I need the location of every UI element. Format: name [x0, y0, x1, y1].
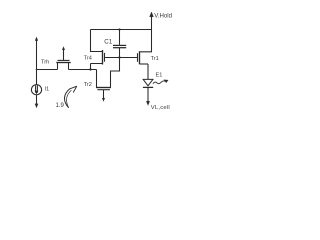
svg-text:Trh: Trh [41, 59, 49, 65]
transistor Trh drain leg [68, 63, 70, 70]
transistor Trh source leg [57, 63, 59, 70]
wire gate bus from Tr4 gate to Tr1 gate [105, 57, 138, 59]
transistor Tr2 left leg [96, 70, 98, 88]
svg-text:Tr2: Tr2 [84, 82, 92, 88]
LED E1 emission wavy arrow [153, 81, 165, 84]
transistor Tr4 gate bar [104, 53, 106, 62]
LED E1 diode triangle [143, 79, 153, 85]
wire mid rail right segment [69, 69, 97, 71]
wire LED cathode down with arrow [147, 87, 149, 101]
svg-text:VL,cell: VL,cell [151, 105, 170, 111]
wire Tr4 source stub [91, 64, 103, 70]
svg-text:1.9: 1.9 [56, 103, 65, 109]
svg-text:V.Hold: V.Hold [154, 13, 172, 20]
LED E1 cathode bar [143, 86, 153, 88]
wire top supply rail [91, 29, 152, 31]
transistor Tr2 channel [96, 87, 111, 89]
node dot gate bus junction [118, 56, 120, 58]
wire mid rail left segment [37, 69, 58, 71]
svg-text:Tr1: Tr1 [151, 56, 159, 62]
transistor Tr1 channel [139, 51, 141, 64]
transistor Tr1 gate bar [137, 53, 139, 62]
svg-text:E1: E1 [156, 72, 163, 78]
svg-text:I1: I1 [45, 87, 50, 93]
wire Tr1 source down to LED anode [147, 64, 149, 79]
transistor Tr4 channel [102, 50, 104, 65]
wire data line below current source with down arrow [36, 95, 38, 105]
wire jog from gate bus down to Tr2 right leg [111, 58, 120, 88]
svg-text:C1: C1 [104, 38, 112, 45]
transistor Trh channel [56, 62, 70, 64]
wire left data line with up arrow [36, 40, 38, 85]
wire Tr2 gate lead with arrow [103, 90, 105, 100]
transistor Trh gate bar [58, 59, 70, 61]
wire Tr1 drain stub up to rail [140, 30, 152, 52]
power terminal V.Hold arrow up [151, 15, 153, 30]
callout curved arrow [64, 89, 69, 108]
node dot data line to mid rail [36, 69, 38, 71]
wire C1 bottom lead [119, 48, 121, 58]
wire Trh gate lead with arrow [63, 49, 65, 61]
transistor Tr2 gate bar [97, 89, 110, 91]
wire rail corner down to Tr4 drain stub [91, 30, 103, 52]
node dot capacitor tap on rail [118, 28, 120, 30]
node dot Tr4 source on mid rail [89, 68, 91, 70]
svg-text:Tr4: Tr4 [84, 55, 92, 61]
capacitor C1 [113, 44, 126, 46]
wire C1 top lead [119, 30, 121, 45]
current source I1 [31, 85, 41, 95]
wire Tr1 source stub [140, 63, 149, 65]
